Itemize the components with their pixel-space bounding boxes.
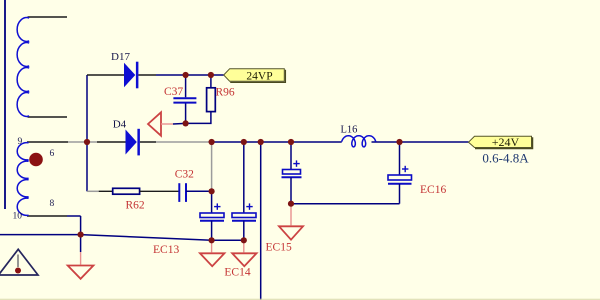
svg-text:R62: R62 [126, 199, 145, 211]
svg-text:L16: L16 [341, 125, 358, 136]
svg-text:8: 8 [50, 199, 55, 209]
svg-text:C32: C32 [175, 168, 194, 180]
svg-text:EC16: EC16 [420, 184, 446, 196]
svg-text:9: 9 [18, 137, 23, 147]
svg-text:EC15: EC15 [266, 241, 292, 253]
svg-text:R96: R96 [216, 87, 235, 99]
svg-text:D4: D4 [113, 119, 127, 131]
svg-text:EC13: EC13 [153, 244, 179, 256]
svg-text:10: 10 [13, 212, 23, 222]
svg-text:0.6-4.8A: 0.6-4.8A [482, 151, 529, 166]
svg-text:C37: C37 [164, 86, 183, 98]
svg-text:EC14: EC14 [224, 267, 250, 279]
svg-text:6: 6 [50, 149, 55, 159]
svg-text:24VP: 24VP [246, 70, 272, 82]
svg-text:+24V: +24V [492, 135, 520, 149]
svg-text:D17: D17 [111, 51, 130, 63]
